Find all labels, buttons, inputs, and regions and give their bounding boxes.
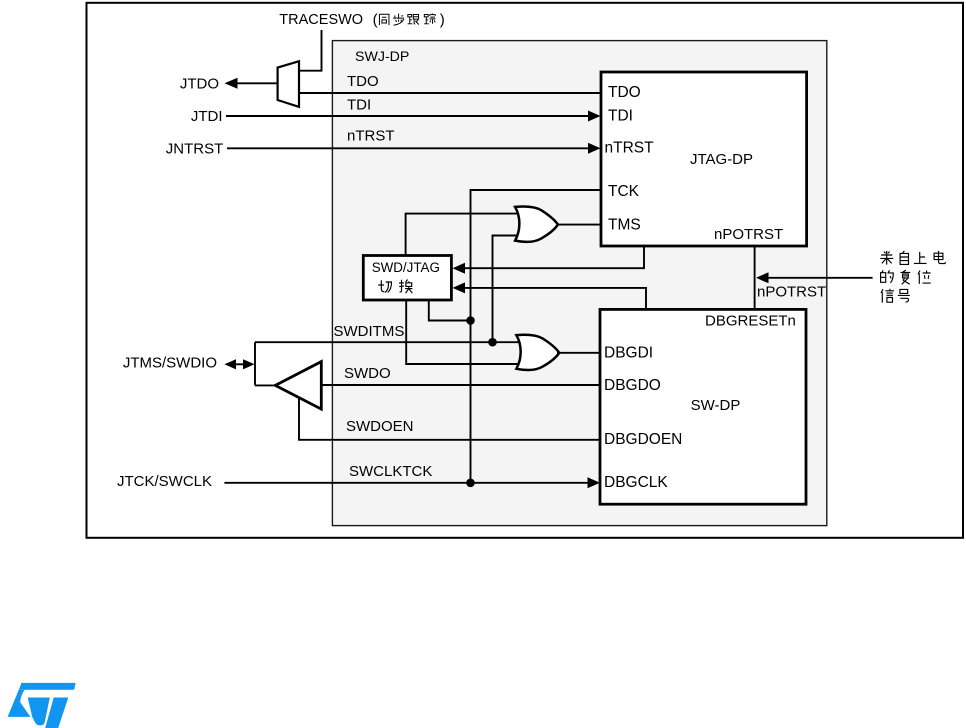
svg-text:JTAG-DP: JTAG-DP [690, 151, 753, 168]
svg-text:DBGDOEN: DBGDOEN [604, 431, 682, 448]
svg-text:SWJ-DP: SWJ-DP [355, 49, 409, 65]
junction J3 (SWCLKTCK/TCK) [466, 479, 475, 488]
wire TMS (G1 output to JTAG-DP) [556, 224, 601, 226]
svg-text:TRACESWO: TRACESWO [279, 12, 363, 28]
svg-text:DBGCLK: DBGCLK [604, 474, 668, 491]
svg-text:TMS: TMS [608, 217, 641, 234]
svg-text:JTDI: JTDI [191, 108, 223, 125]
svg-text:DBGDO: DBGDO [604, 377, 661, 394]
wire SWCLKTCK (arrow into DBGCLK) [224, 482, 590, 484]
svg-text:JTMS/SWDIO: JTMS/SWDIO [123, 355, 217, 372]
wire switch ctrl from SW-DP top [463, 288, 646, 310]
wire G2 output to DBGDI [557, 352, 600, 354]
wire switch ctrl from JTAG-DP bottom [463, 246, 644, 268]
wire nPOTRST (JTAG-DP to SW-DP) [754, 246, 756, 309]
block SWD/JTAG switch [363, 256, 451, 301]
svg-text:JTDO: JTDO [180, 76, 219, 93]
wire external reset (arrow into nPOTRST) [766, 277, 873, 279]
svg-text:(: ( [373, 12, 378, 29]
block SW-DP [600, 309, 806, 504]
svg-text:TDI: TDI [608, 108, 633, 125]
svg-text:): ) [440, 12, 445, 29]
label 来自上电的复位信号 (power-on reset note) [880, 251, 893, 265]
wire SWDITMS [255, 341, 524, 343]
or-gate G2 (DBGDI combine) [516, 335, 559, 370]
tristate buffer B1 (SWDO out) [275, 362, 321, 410]
wire switch output to TCK net [429, 300, 471, 321]
svg-text:SW-DP: SW-DP [691, 397, 741, 414]
svg-text:DBGRESETn: DBGRESETn [705, 313, 796, 330]
wire JTMS/SWDIO bus (vertical) [254, 342, 256, 385]
wire JTDI to TDI (arrow right) [226, 115, 590, 117]
block JTAG-DP [601, 72, 807, 246]
svg-text:JTCK/SWCLK: JTCK/SWCLK [117, 473, 212, 490]
wire switch output to G2 bottom input [406, 300, 524, 364]
or-gate G1 (TMS combine) [515, 206, 558, 241]
label 切换 (switch) [378, 280, 391, 292]
wire JTDO (mux output, arrow left) [236, 82, 278, 84]
wire TCK (JTAG-DP left, down to SWCLKTCK net) [471, 190, 602, 483]
wire SWDO (DBGDO to buffer) [321, 384, 600, 386]
svg-text:nTRST: nTRST [605, 140, 655, 157]
wire G1 bottom input (from SWDITMS net) [493, 236, 524, 343]
block SWJ-DP shaded region [332, 41, 826, 526]
svg-text:SWD/JTAG: SWD/JTAG [372, 260, 440, 275]
mux U1 (TDO / TRACESWO output select) [278, 61, 299, 107]
arrowhead into switch (upper) [453, 263, 466, 274]
svg-text:SWDO: SWDO [344, 365, 391, 382]
svg-text:nPOTRST: nPOTRST [714, 226, 783, 243]
junction J1 (switch/TCK) [466, 316, 475, 325]
outer figure border [87, 3, 964, 538]
wire JNTRST to nTRST (arrow right) [227, 147, 590, 149]
wire TRACESWO [299, 30, 322, 71]
svg-text:nTRST: nTRST [347, 127, 395, 144]
svg-text:TCK: TCK [608, 183, 640, 200]
junction J2 (SWDITMS/G1) [488, 338, 497, 347]
wire G1 top input (from switch top pin) [406, 214, 523, 256]
wire SWDOEN (DBGDOEN to buffer enable) [299, 398, 600, 440]
svg-text:TDO: TDO [347, 73, 379, 90]
svg-text:TDO: TDO [608, 84, 641, 101]
svg-text:DBGDI: DBGDI [604, 345, 653, 362]
wire bus to buffer tip [255, 384, 275, 386]
svg-text:SWDOEN: SWDOEN [346, 418, 414, 435]
svg-text:SWDITMS: SWDITMS [334, 323, 405, 340]
svg-text:nPOTRST: nPOTRST [757, 284, 826, 301]
svg-text:JNTRST: JNTRST [166, 141, 224, 158]
svg-text:TDI: TDI [347, 97, 371, 114]
bidirectional arrow JTMS/SWDIO [234, 363, 245, 365]
wire TDO (JTAG-DP to mux) [299, 92, 601, 94]
svg-text:SWCLKTCK: SWCLKTCK [349, 463, 432, 480]
arrowhead into switch (lower) [453, 282, 466, 293]
ST logo [8, 683, 76, 728]
